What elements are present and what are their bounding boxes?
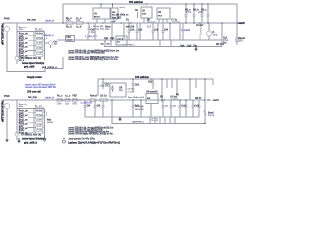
svg-text:.step param Cb 47u 220u: .step param Cb 47u 220u — [68, 138, 96, 141]
svg-text:Rfb1 10k: Rfb1 10k — [135, 106, 145, 108]
IC box U1b — [111, 4, 118, 23]
cap below wire x183 — [182, 23, 185, 40]
svg-text:L6: L6 — [147, 20, 150, 22]
svg-text:PVIN: PVIN — [4, 19, 10, 21]
comp between U1 U2 — [137, 12, 139, 18]
svg-text:50m: 50m — [19, 106, 23, 108]
behavioral source B2 — [42, 112, 47, 117]
svg-text:sense_a: sense_a — [45, 35, 55, 37]
svg-text:Lb_a: Lb_a — [19, 60, 25, 62]
svg-text:FILT: FILT — [158, 16, 163, 18]
mid caps on verticals — [128, 23, 165, 40]
wire bottom ladder cross — [17, 108, 45, 110]
svg-text:LDO: LDO — [142, 14, 147, 16]
svg-text:Ci4: Ci4 — [87, 105, 91, 108]
svg-text:Cd 10u: Cd 10u — [128, 89, 136, 91]
svg-text:worst case 3V3 droop 85mV: worst case 3V3 droop 85mV — [25, 83, 56, 86]
svg-text:60R: 60R — [73, 104, 78, 106]
bottom branch caps — [84, 100, 201, 117]
ground sym left — [18, 138, 21, 143]
svg-text:22u: 22u — [165, 106, 169, 108]
ground top mid — [195, 47, 198, 52]
svg-text:L1 2u2: L1 2u2 — [36, 33, 43, 35]
svg-text:3R3: 3R3 — [239, 41, 244, 43]
svg-text:en_dly 100u ss: en_dly 100u ss — [112, 15, 129, 17]
svg-text:RL_par: RL_par — [35, 104, 42, 107]
svg-text:L5 100n: L5 100n — [36, 130, 44, 132]
svg-text:L4 220n: L4 220n — [36, 47, 44, 50]
svg-text:D1: D1 — [126, 20, 130, 22]
svg-text:25m: 25m — [66, 20, 71, 22]
svg-text:Co2: Co2 — [181, 106, 186, 108]
inductor L8 bottom — [170, 99, 178, 100]
svg-text:Cx1: Cx1 — [130, 29, 135, 31]
svg-text:Supply notes:: Supply notes: — [27, 76, 42, 79]
load arrow bottom — [204, 100, 207, 124]
svg-text:22p: 22p — [119, 90, 124, 92]
svg-text:Co3: Co3 — [194, 106, 199, 108]
svg-text:Cb1: Cb1 — [105, 83, 110, 85]
svg-text:esr 5m: esr 5m — [128, 90, 135, 93]
svg-text:output caps derated 40% DC: output caps derated 40% DC — [25, 86, 56, 89]
svg-text:Lc_b: Lc_b — [76, 26, 82, 28]
svg-text:FB2: FB2 — [73, 95, 78, 97]
svg-text:U4 buck18: U4 buck18 — [146, 90, 158, 93]
ground arrow mid — [43, 137, 46, 142]
svg-text:Rfb2 2k2: Rfb2 2k2 — [135, 109, 145, 111]
junction dots top — [62, 22, 222, 23]
svg-text:V1 SINE(0 10m 1k): V1 SINE(0 10m 1k) — [21, 58, 41, 60]
ladder row wires bottom — [28, 109, 45, 133]
svg-text:Ci5: Ci5 — [97, 106, 101, 108]
svg-text:U3: U3 — [158, 12, 162, 14]
svg-text:U2: U2 — [142, 11, 146, 13]
ground sym far left — [6, 140, 9, 142]
junction dots rail bottom — [102, 78, 205, 79]
svg-text:Cb2: Cb2 — [135, 84, 140, 86]
diode D2 bottom — [160, 99, 166, 102]
diode D1 on wire — [126, 21, 133, 24]
svg-text:Rd 2R2: Rd 2R2 — [216, 44, 225, 46]
svg-text:L2 1u0: L2 1u0 — [36, 38, 43, 40]
svg-text:.meas TRAN ripple MAX(V(n_in18: .meas TRAN ripple MAX(V(n_in18)) to 4m — [68, 132, 113, 135]
svg-text:out33: out33 — [239, 22, 246, 25]
wire top return rail — [104, 46, 222, 48]
comp group2 bottom — [90, 99, 107, 102]
wire bottom rail left drop — [97, 79, 99, 96]
svg-text:1V8 core rail: 1V8 core rail — [27, 92, 41, 94]
inductor branch L9 — [200, 23, 201, 40]
svg-text:SW: SW — [147, 98, 150, 100]
svg-text:1V8 switcher: 1V8 switcher — [135, 76, 149, 79]
svg-text:10m: 10m — [57, 104, 62, 106]
wire main bottom — [3, 99, 205, 101]
ladder values bottom — [36, 110, 44, 132]
svg-text:10u: 10u — [193, 46, 198, 48]
svg-text:4u7: 4u7 — [147, 25, 152, 28]
svg-text:L9 4u7: L9 4u7 — [196, 24, 204, 27]
inductor L7 on wire — [171, 22, 180, 23]
svg-text:.meas TRAN v33_pp PP(V(out33)): .meas TRAN v33_pp PP(V(out33)) — [68, 52, 105, 55]
laplace squiggle — [63, 138, 66, 144]
svg-text:Csn 2n2: Csn 2n2 — [136, 97, 145, 99]
svg-text:L7 1u: L7 1u — [171, 20, 178, 22]
svg-text:Cb3: Cb3 — [148, 81, 153, 83]
svg-text:V2 SINE(0 10m 1k): V2 SINE(0 10m 1k) — [21, 135, 41, 137]
svg-text:Lf2 1u: Lf2 1u — [100, 95, 107, 97]
ladder box on cross bottom — [35, 107, 43, 110]
svg-text:3A pk: 3A pk — [208, 114, 215, 117]
IC box U2 — [141, 7, 152, 23]
wire bottom ladder left rail — [16, 100, 18, 134]
svg-text:R9 47: R9 47 — [195, 97, 202, 100]
svg-text:220u: 220u — [198, 12, 204, 14]
junction dots bottom — [62, 99, 205, 124]
wire main top V_IN — [3, 22, 237, 24]
svg-text:3V3 switcher: 3V3 switcher — [129, 1, 143, 4]
svg-text:Cg4: Cg4 — [180, 45, 185, 48]
svg-text:Lg: Lg — [176, 94, 179, 96]
svg-text:L4 220n: L4 220n — [36, 124, 44, 127]
svg-text:L3 470n: L3 470n — [36, 119, 44, 122]
gnd caps row — [104, 40, 222, 47]
svg-text:GNDPWR_b: GNDPWR_b — [132, 122, 145, 124]
wire bottom gnd rail — [85, 116, 199, 118]
ferrite box FB1 — [66, 36, 75, 42]
svg-text:10u: 10u — [101, 43, 105, 45]
return ticks bottom — [150, 117, 175, 124]
series comps on bottom wire — [57, 99, 78, 101]
svg-text:PVIN: PVIN — [4, 96, 10, 98]
wire top gnd rail — [57, 39, 222, 41]
ladder box on cross — [35, 30, 43, 33]
svg-text:10m: 10m — [105, 29, 110, 31]
svg-text:mbr120: mbr120 — [126, 26, 135, 28]
ladder values top — [36, 33, 44, 55]
wire bottom rail right drop — [204, 79, 206, 100]
ladder rows bottom text — [19, 103, 29, 135]
mid verticals wire to gnd — [88, 23, 180, 40]
svg-text:noise inject 10mVpp: noise inject 10mVpp — [22, 62, 45, 65]
svg-text:470u: 470u — [186, 11, 192, 14]
svg-text:5m: 5m — [117, 41, 120, 43]
svg-text:en fb: en fb — [120, 7, 126, 9]
wire top right sense — [221, 23, 223, 47]
voltage source V1 — [4, 26, 9, 31]
svg-text:L2 1u0: L2 1u0 — [36, 115, 43, 117]
svg-text:Lc_c: Lc_c — [65, 95, 71, 97]
svg-text:Rdmp 1R0: Rdmp 1R0 — [93, 26, 104, 28]
svg-text:noise inject 10mVpp: noise inject 10mVpp — [22, 138, 45, 141]
wire right edge — [236, 4, 238, 45]
meas text block top — [68, 50, 119, 62]
svg-text:n_in18 rail: n_in18 rail — [81, 103, 93, 105]
output tick — [237, 22, 241, 24]
ladder comp rects bottom — [36, 112, 43, 134]
svg-text:Cg1: Cg1 — [104, 38, 109, 40]
svg-text:fsw 2M2: fsw 2M2 — [112, 17, 122, 19]
svg-text:step: step — [213, 34, 218, 37]
svg-text:cable_in: cable_in — [45, 98, 55, 100]
inductor L6 on wire — [147, 22, 156, 23]
wire bottom ladder right rail — [44, 109, 46, 138]
voltage source V4 aux — [15, 129, 19, 140]
svg-text:10u: 10u — [107, 43, 111, 45]
ladder comp rects top — [36, 35, 43, 57]
svg-text:Cx3: Cx3 — [154, 29, 159, 31]
cap Cin1 — [88, 23, 91, 34]
svg-text:10u: 10u — [91, 32, 96, 34]
svg-text:U1: U1 — [94, 14, 98, 16]
svg-text:Cg2: Cg2 — [110, 38, 115, 40]
rail caps bottom — [102, 79, 196, 100]
tran box — [116, 36, 127, 45]
wire bottom rail right end — [212, 79, 214, 85]
svg-text:Cblk 220u: Cblk 220u — [100, 86, 111, 88]
junction dots top rail — [100, 3, 208, 4]
IC box U4 — [146, 94, 158, 104]
voltage source V3 — [4, 103, 9, 108]
svg-text:out18: out18 — [213, 99, 220, 102]
svg-text:gnd_shift: gnd_shift — [24, 66, 35, 69]
svg-text:RL_par: RL_par — [35, 27, 42, 30]
svg-text:Rc_b: Rc_b — [66, 26, 72, 28]
svg-text:pgnd: pgnd — [111, 21, 117, 23]
behavioral source B1 — [42, 35, 47, 40]
wire bottom return left — [6, 109, 8, 140]
svg-text:.tran 0: .tran 0 — [117, 38, 124, 41]
wire top ladder left rail — [16, 23, 18, 57]
svg-text:D2: D2 — [160, 96, 164, 98]
wire bottom top rail — [98, 78, 213, 80]
svg-text:L1 2u2: L1 2u2 — [36, 110, 43, 112]
svg-text:PWR_SRC_MODEL_B_IMP: PWR_SRC_MODEL_B_IMP — [1, 101, 4, 123]
wire top ladder cross — [17, 31, 45, 33]
feedback box bottom — [110, 83, 126, 97]
svg-text:Rsns2: Rsns2 — [90, 95, 98, 97]
series R groups on wire — [66, 22, 83, 25]
svg-text:bat_imp: bat_imp — [28, 96, 37, 99]
svg-text:bat_imp: bat_imp — [27, 19, 36, 22]
wire left vertical — [62, 4, 64, 23]
svg-text:Rc_c: Rc_c — [57, 95, 63, 97]
svg-text:GNDPWR_a: GNDPWR_a — [123, 44, 136, 46]
IC box U3 — [157, 8, 170, 23]
svg-text:Cx2: Cx2 — [138, 29, 143, 31]
wire top return left — [7, 32, 63, 72]
svg-text:cable_in: cable_in — [45, 21, 55, 23]
svg-text:pulse: pulse — [47, 122, 54, 124]
IC box U1 — [93, 4, 110, 23]
svg-text:4n7: 4n7 — [54, 43, 59, 46]
svg-text:L5 100n: L5 100n — [36, 53, 44, 55]
svg-text:50m: 50m — [19, 29, 23, 31]
svg-text:L8 2u2: L8 2u2 — [170, 96, 178, 98]
svg-text:.meas TRAN inrush MAX(I(Co1)): .meas TRAN inrush MAX(I(Co1)) from 0 to … — [68, 58, 117, 61]
cap bank branches from top rail — [185, 4, 210, 23]
svg-text:Cb: Cb — [135, 10, 139, 12]
ground sym mid bottom — [119, 117, 122, 121]
svg-text:L3 470n: L3 470n — [36, 42, 44, 45]
svg-text:gnd_shift_b: gnd_shift_b — [24, 142, 38, 145]
load comp right — [236, 38, 238, 42]
meas text block bottom — [68, 126, 113, 140]
svg-text:v_mid_sns: v_mid_sns — [85, 36, 98, 38]
svg-text:Cg5: Cg5 — [187, 46, 192, 48]
svg-text:gnd_return_a: gnd_return_a — [42, 66, 57, 69]
output tick bottom — [207, 99, 211, 101]
current source I1 — [207, 23, 212, 40]
wire top ladder right rail — [44, 32, 46, 61]
svg-text:22u: 22u — [173, 106, 177, 108]
svg-text:1u2: 1u2 — [65, 104, 70, 106]
ladder rows top text — [19, 26, 29, 62]
voltage source V2 aux — [15, 52, 19, 64]
ladder row wires top — [28, 32, 45, 56]
wire bottom return rail — [112, 100, 205, 124]
svg-text:BUCK: BUCK — [94, 17, 100, 19]
wire top rail net 3V3IN — [63, 3, 237, 5]
svg-text:Laplace: Z(s)=(s*Lf+Rd)/(s^2*L: Laplace: Z(s)=(s*Lf+Rd)/(s^2*Lf*Cb+s*Rd*… — [68, 142, 120, 144]
svg-text:PWR_SRC_MODEL_A_IMP: PWR_SRC_MODEL_A_IMP — [1, 24, 4, 46]
svg-text:Cx4: Cx4 — [164, 28, 169, 31]
cap branch circle top — [45, 41, 53, 48]
svg-text:600R: 600R — [67, 40, 73, 42]
